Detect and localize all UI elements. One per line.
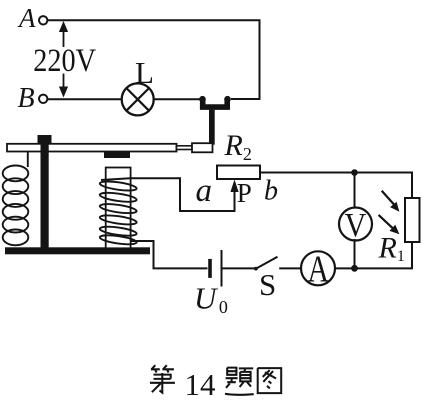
terminal A — [39, 16, 47, 24]
light arrow 2 — [379, 215, 400, 234]
svg-text:R1: R1 — [378, 232, 405, 266]
svg-text:220V: 220V — [33, 43, 96, 79]
pole cap — [104, 151, 130, 158]
图 — [258, 368, 282, 393]
terminal B — [39, 95, 47, 103]
junction dot top — [351, 169, 358, 176]
220V double arrow — [59, 21, 68, 98]
wire ammeter left to switch — [279, 267, 301, 269]
svg-text:b: b — [264, 176, 278, 207]
题 — [225, 368, 254, 395]
svg-text:U0: U0 — [194, 281, 228, 318]
wire B to lamp — [47, 98, 122, 100]
coil body — [106, 168, 131, 249]
contact stem — [209, 110, 215, 145]
wire coil bottom to battery — [131, 241, 208, 268]
wire lamp to left contact — [154, 98, 200, 100]
contact dot right — [224, 96, 231, 103]
rheostat R2 — [217, 166, 260, 180]
junction dot bottom — [351, 265, 358, 272]
第 — [150, 365, 175, 392]
spring — [3, 152, 29, 246]
battery U0 — [210, 250, 222, 287]
wiper arrow P — [230, 180, 238, 193]
voltmeter stubs — [354, 173, 356, 208]
contact holder block — [192, 143, 213, 152]
coil turns — [99, 180, 137, 246]
svg-text:L: L — [135, 55, 154, 90]
pivot post — [41, 135, 49, 252]
wire switch to battery — [223, 267, 256, 269]
voltmeter V — [339, 208, 372, 241]
svg-text:B: B — [18, 83, 35, 114]
wire coil top to wiper path — [101, 178, 235, 211]
wire R1 bottom to ammeter — [335, 242, 412, 268]
svg-text:14: 14 — [185, 367, 217, 402]
contact dot left — [199, 96, 206, 103]
wire R2 right to R1 top — [260, 173, 412, 199]
svg-text:R2: R2 — [224, 129, 252, 164]
armature bar — [7, 144, 177, 152]
contact bridge bracket — [200, 99, 230, 110]
svg-text:S: S — [259, 267, 276, 302]
svg-text:a: a — [196, 173, 213, 209]
ammeter A — [301, 251, 335, 285]
base bar — [5, 247, 150, 254]
svg-text:V: V — [345, 207, 367, 244]
svg-text:A: A — [17, 3, 36, 33]
caption: 第 14 题图 — [150, 365, 281, 402]
insulating link — [177, 146, 193, 150]
switch S — [254, 257, 278, 271]
svg-text:A: A — [308, 249, 330, 291]
wire from A to top-right corner — [47, 20, 259, 99]
photoresistor R1 — [405, 198, 420, 242]
lamp L — [122, 83, 154, 115]
light arrow 1 — [382, 191, 400, 212]
svg-text:P: P — [237, 178, 252, 208]
